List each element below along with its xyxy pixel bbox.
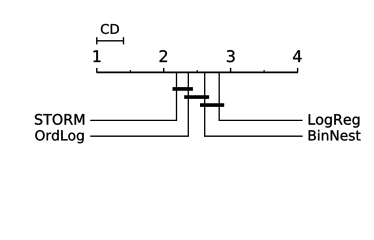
STORM rank line (rank 2.19) (90, 72, 176, 120)
axis number 3 (227, 50, 235, 62)
clique bar STORM-OrdLog (173, 87, 193, 91)
BinNest rank line (rank 2.61) (205, 72, 303, 136)
label STORM (35, 114, 84, 125)
axis line (96, 71, 298, 73)
axis minor ticks (130, 70, 264, 72)
axis number 1 (94, 50, 101, 62)
OrdLog rank line (rank 2.37) (90, 72, 188, 136)
axis number 4 (293, 50, 302, 62)
CD interval bracket (97, 37, 124, 44)
label LogReg (309, 114, 360, 127)
LogReg rank line (rank 2.83) (219, 72, 302, 120)
label BinNest (309, 130, 361, 141)
label OrdLog (35, 130, 83, 143)
axis major ticks (97, 68, 298, 73)
CD label (101, 24, 119, 34)
axis number 2 (160, 50, 167, 62)
clique bar BinNest-LogReg (200, 103, 224, 107)
clique bar OrdLog-BinNest (184, 95, 209, 99)
